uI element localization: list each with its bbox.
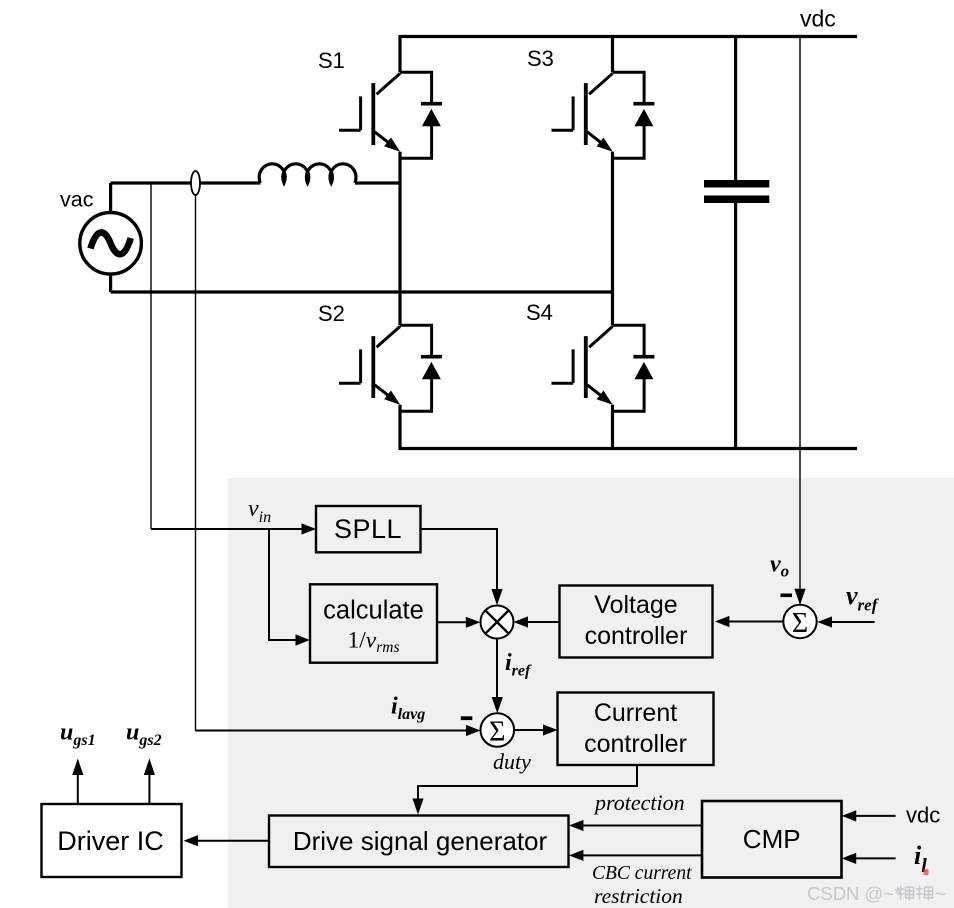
wire: i_lavg into current summer [196,730,467,732]
wire: CMP cbc to DSG [583,854,702,856]
svg-text:S2: S2 [318,301,345,326]
wire: top dc rail [400,35,857,38]
svg-text:controller: controller [585,622,688,650]
svg-text:CMP: CMP [743,824,801,854]
wire/arrow: u_gs2 output [148,774,150,804]
diode across S1 [400,72,442,158]
svg-text:protection: protection [593,790,685,815]
diode across S4 [613,325,655,411]
wire: vdc into CMP [856,815,896,817]
ac source V1 [80,183,142,292]
wire: i_l into CMP [856,857,896,859]
wire: current controller output (duty) to drive signal generator [418,765,637,800]
svg-text:vdc: vdc [800,6,836,32]
block Voltage controller [560,586,713,658]
block Drive signal generator [269,816,569,868]
wire/arrow: u_gs1 output [77,774,79,804]
svg-text:duty: duty [493,749,531,774]
svg-text:Current: Current [594,699,677,727]
sense wire: inductor current tap [195,194,197,731]
wire: voltage controller to multiplier [528,621,560,623]
sense wire: v_in tap [150,183,152,529]
transistor S3 (IGBT) [552,74,613,152]
summer sigma (current loop) [481,713,515,747]
wire: bottom dc rail [400,447,857,450]
wire: left leg vertical segments (x=400) [398,35,401,450]
wire: inductor to bridge midpoint [355,181,400,184]
wire: right leg vertical segments (x=612.5) [611,35,614,450]
wire: ac bottom wire to right leg midpoint [111,290,614,293]
control-section grey panel [228,478,954,908]
wire: DSG to Driver IC [198,840,269,842]
svg-text:S4: S4 [526,300,553,325]
wire: sigma to current controller [514,729,543,731]
wire: calculate to multiplier [437,621,466,623]
current sensor ellipse [191,171,200,195]
transistor S4 (IGBT) [552,327,613,405]
diode across S2 [400,325,442,411]
diode across S3 [613,72,655,158]
svg-text:Driver IC: Driver IC [57,826,164,856]
capacitor C (dc bus) [704,37,769,451]
svg-text:Σ: Σ [792,608,808,639]
block SPLL [316,506,421,552]
svg-text:SPLL: SPLL [334,514,402,544]
multiplier junction (circle with X) [481,606,514,639]
svg-text:vac: vac [60,188,94,212]
svg-text:Voltage: Voltage [594,591,677,619]
svg-text:CSDN @~*: CSDN @~* [807,883,901,904]
wire: CMP protection to DSG [583,825,702,827]
svg-text:Drive signal generator: Drive signal generator [293,826,548,856]
wire: v_in to SPLL [151,528,302,530]
wire: sigma to voltage controller [730,621,784,623]
block CMP [702,801,842,878]
svg-text:S1: S1 [318,48,345,73]
svg-text:S3: S3 [527,46,554,71]
svg-text:calculate: calculate [323,597,424,625]
minus sign at voltage summer [781,594,793,598]
inductor L [259,164,356,183]
svg-text:~: ~ [935,883,946,904]
transistor S1 (IGBT) [339,74,400,152]
block calculate 1/vrms [310,584,437,662]
wire: v_in branch to calculate [269,529,296,640]
wire: SPLL to multiplier [421,529,498,590]
svg-text:vdc: vdc [906,803,940,828]
summer sigma (voltage loop) [783,605,816,639]
sense wire: v_o from dc rail [799,37,801,590]
minus sign at current summer [461,716,473,720]
svg-text:Σ: Σ [489,717,505,748]
block Driver IC [42,804,182,877]
wire: multiplier output i_ref down to current summer [496,639,498,699]
wire: ac top wire from source to inductor [111,181,261,184]
block Current controller [558,693,714,766]
svg-text:CBC current: CBC current [592,863,692,884]
wire: v_ref into sigma [832,621,875,623]
svg-text:controller: controller [584,730,687,758]
transistor S2 (IGBT) [339,327,400,405]
svg-text:restriction: restriction [594,884,683,908]
